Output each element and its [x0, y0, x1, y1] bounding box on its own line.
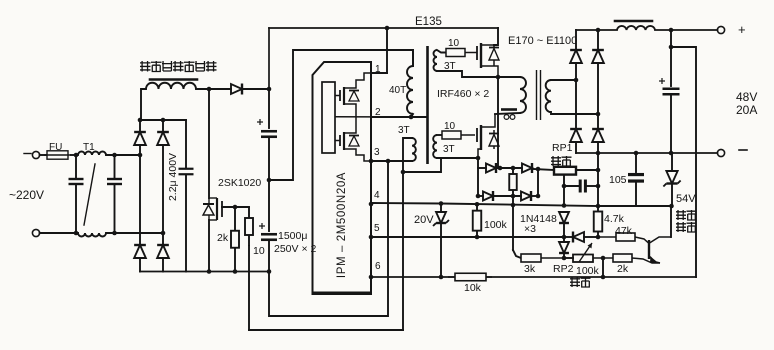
wire zener to RP2: [564, 257, 573, 259]
junction pin5 edge: [369, 235, 374, 240]
wire +rail out: [655, 29, 717, 31]
svg-text:100k: 100k: [576, 265, 600, 277]
svg-text:2k: 2k: [617, 263, 629, 275]
junction 598 237: [596, 235, 601, 240]
label over voltage: [676, 210, 697, 220]
junction pin6 edge: [369, 275, 374, 280]
wire N terminal to T1 bottom: [40, 232, 78, 234]
wire snubber drop: [497, 77, 499, 168]
junction 2k on rail: [233, 269, 238, 274]
junction T1 cap right top: [112, 153, 117, 158]
transistor IRF460 upper: [477, 43, 499, 77]
junction bridge col2 top: [161, 118, 166, 123]
wire X-cap right upper: [114, 155, 116, 178]
label 47k: [615, 225, 633, 237]
junction gate 2k: [233, 205, 238, 210]
resistor 3k: [521, 254, 564, 262]
svg-text:3: 3: [374, 147, 380, 158]
junction chain rail: [601, 275, 606, 280]
diode clamp 2b: [521, 191, 531, 201]
wire T1 top to bridge: [106, 154, 140, 156]
capacitor X2: [107, 179, 122, 184]
junction switch node: [496, 75, 501, 80]
IPM mosfet upper: [335, 73, 371, 117]
wire output cap lower: [670, 95, 672, 154]
label 2SK1020: [218, 177, 261, 189]
svg-text:100k: 100k: [484, 219, 508, 231]
diode 1N4148 b: [573, 232, 584, 243]
svg-text:20A: 20A: [736, 103, 757, 117]
svg-text:RP2: RP2: [553, 263, 574, 275]
wire lower source drop: [477, 158, 479, 196]
junction cap2 rail: [267, 269, 272, 274]
junction secondary top: [574, 78, 579, 83]
inductor primary: [520, 77, 526, 113]
capacitor 2.2u 400V: [179, 169, 194, 175]
junction zener rail: [439, 275, 444, 280]
junction row1 switch: [498, 166, 503, 171]
junction wiper pin5: [562, 235, 567, 240]
label 2.2u 400V: [167, 153, 179, 201]
junction -rail 105: [634, 151, 639, 156]
junction row2 end: [536, 194, 541, 199]
wire 40T bottom: [411, 114, 413, 117]
wire 40T top: [412, 50, 414, 66]
wire wiper diode: [564, 236, 573, 238]
label RP2: [553, 263, 574, 275]
wire 4148c upper: [563, 237, 565, 242]
wire bulk cap 2.2u lower: [185, 175, 187, 272]
wire clamp vertical: [537, 169, 539, 196]
wire bridge col2 lower: [162, 258, 164, 272]
junction chain zener: [562, 256, 567, 261]
label - out: [739, 149, 747, 151]
label voltage adjust: [570, 277, 591, 287]
wire PFC diode to bus: [242, 88, 269, 90]
diode bridge D2: [157, 132, 169, 145]
transistor IRF460 lower: [477, 114, 499, 158]
junction bridge col1 top: [138, 118, 143, 123]
svg-text:4: 4: [374, 190, 380, 201]
wire bus cap1 upper: [268, 89, 270, 128]
svg-text:10k: 10k: [464, 282, 482, 294]
wire 20V upper: [440, 204, 442, 213]
inductor PFC core bar: [150, 78, 197, 81]
label 4.7k: [604, 213, 625, 225]
junction bridge col2 AC: [161, 231, 166, 236]
junction 3T source: [476, 156, 481, 161]
junction 20V top: [439, 201, 444, 206]
transformer T1 bottom winding: [78, 233, 106, 237]
transistor 2SK1020: [203, 198, 222, 220]
svg-text:2SK1020: 2SK1020: [218, 177, 261, 189]
wire rect col1: [575, 30, 577, 50]
svg-text:IPM – 2M500N20A: IPM – 2M500N20A: [336, 172, 348, 278]
inductor output filter: [617, 26, 655, 30]
junction sense tap: [669, 45, 674, 50]
capacitor 105: [628, 175, 644, 182]
wire primary bottom: [495, 113, 520, 114]
capacitor bulk upper: [257, 119, 277, 137]
junction output cap top: [669, 28, 674, 33]
inductor output core bar: [615, 20, 652, 23]
label 20A: [736, 103, 757, 117]
transformer T1 core diagonal: [84, 164, 95, 225]
wire sense line: [671, 47, 696, 277]
label 10 lower: [444, 121, 456, 132]
junction T1 cap left top: [74, 153, 79, 158]
junction source on rail: [207, 269, 212, 274]
junction 598 206: [596, 204, 601, 209]
junction T1 cap right bottom: [112, 231, 117, 236]
resistor 47k: [598, 233, 635, 241]
wire bus cap1 lower: [268, 137, 270, 231]
wire bridge col2 mid: [162, 145, 164, 245]
wire row1 mid: [497, 167, 522, 169]
wire y172 link: [403, 158, 441, 172]
junction pin3: [386, 159, 391, 164]
wire 3T lower bottom: [437, 157, 478, 159]
label 2k: [217, 232, 229, 244]
wire row2 left: [478, 195, 483, 197]
resistor 100k: [473, 204, 482, 237]
inductor 40T primary: [407, 66, 413, 114]
svg-text:250V × 2: 250V × 2: [274, 243, 316, 255]
label power factor corrector: [140, 61, 217, 72]
label IRF460 x 2: [437, 88, 489, 100]
svg-text:+: +: [738, 22, 746, 37]
label T1: [83, 142, 95, 153]
junction ovp node: [669, 204, 674, 209]
wire X-cap left upper: [75, 155, 77, 178]
wire row1 to RP1: [533, 169, 554, 170]
label 100k rp2: [576, 265, 600, 277]
wire chain to rail: [602, 258, 604, 277]
junction wiper pin4: [562, 203, 567, 208]
junction bridge col1 AC: [138, 153, 143, 158]
junction comp cap right: [596, 184, 601, 189]
wire FU to T1: [71, 154, 78, 156]
wire secondary top: [551, 79, 576, 81]
svg-text:40T: 40T: [389, 85, 406, 96]
label 105: [609, 174, 627, 186]
svg-text:×3: ×3: [524, 223, 536, 235]
label 2k out: [617, 263, 629, 275]
svg-text:5: 5: [374, 223, 380, 234]
wire 3T upper top: [437, 50, 446, 53]
svg-text:2k: 2k: [217, 232, 229, 244]
junction 100k top: [475, 202, 480, 207]
wire 3T left bottom: [388, 160, 412, 162]
wire outer drive loop: [249, 329, 403, 331]
transformer core E135: [426, 46, 429, 164]
wire secondary bottom: [551, 112, 598, 114]
wire row2 right: [532, 195, 538, 197]
inductor PFC boost: [146, 83, 196, 89]
wire RP1 right: [576, 169, 598, 171]
label pin 2: [375, 107, 381, 118]
diode rect D2: [592, 50, 604, 63]
junction row1 rp1: [536, 167, 541, 172]
wire 3T upper bottom: [437, 71, 498, 77]
potentiometer RP2: [573, 243, 593, 262]
label pin 6: [375, 261, 381, 272]
wire 2SK1020 gate: [222, 206, 249, 208]
wire bridge col1 upper: [139, 120, 141, 132]
wire rect col1 mid: [575, 63, 577, 129]
junction row2 left: [476, 194, 481, 199]
wire rect col2 top: [597, 30, 599, 50]
wire input top dash: [24, 153, 31, 155]
wire rail to upper drain: [494, 28, 498, 45]
junction rect col2 rail: [596, 28, 601, 33]
capacitor RP1 comp: [580, 180, 585, 193]
transistor Q1: [632, 237, 671, 263]
svg-text:47k: 47k: [615, 225, 633, 237]
wire loop cap to pin3: [269, 161, 388, 316]
inductor 3T upper: [434, 50, 438, 71]
svg-text:E170 ~ E1100: E170 ~ E1100: [508, 35, 577, 47]
wire -rail: [576, 152, 717, 154]
diode 1N4148 a: [559, 212, 569, 223]
wire 105 lower: [635, 181, 637, 206]
resistor 10 lower: [442, 131, 475, 139]
wire RP1 wiper: [563, 175, 565, 186]
resistor 2k gate: [231, 207, 239, 272]
wire X-cap left lower: [75, 185, 77, 233]
input terminal N: [32, 229, 39, 236]
wire output cap drop: [670, 30, 672, 86]
inductor secondary: [546, 80, 551, 112]
diode bridge D1: [134, 132, 146, 145]
inductor 3T left: [412, 138, 416, 161]
wire X-cap right lower: [114, 185, 116, 233]
wire 54V lower: [671, 184, 673, 207]
label FU: [49, 142, 62, 153]
wire bridge top rail: [140, 119, 186, 121]
wire rect col1 bottom: [575, 142, 577, 153]
label 48V: [736, 90, 757, 104]
diode rect D4: [592, 129, 604, 142]
output terminal +: [717, 26, 724, 33]
wire bottom rail left: [140, 271, 269, 273]
svg-text:FU: FU: [49, 142, 62, 153]
junction secondary bottom: [596, 112, 601, 117]
label IPM-2M500N20A: [336, 172, 348, 278]
label x3: [524, 223, 536, 235]
junction cap midpoint: [267, 178, 272, 183]
wire 4148c lower: [563, 253, 565, 258]
junction rp2 2k: [601, 256, 606, 261]
svg-text:1500μ: 1500μ: [278, 230, 307, 242]
wire pin6 rail: [371, 276, 696, 278]
wire 2SK1020 drain: [208, 89, 210, 198]
label 100k: [484, 219, 508, 231]
svg-text:2.2μ 400V: 2.2μ 400V: [167, 153, 179, 201]
diode rect D1: [570, 50, 582, 63]
wire row1 left: [478, 167, 486, 169]
label 10 gate: [253, 245, 265, 257]
wire bulk cap 2.2u drop: [185, 120, 187, 168]
wire 10 through rail: [248, 246, 250, 330]
label ~220V: [9, 188, 44, 202]
svg-text:10: 10: [444, 121, 456, 132]
label 10 upper: [448, 38, 460, 49]
resistor 10k: [448, 273, 492, 281]
wire PFC coil out: [196, 88, 231, 90]
label pin 5: [374, 223, 380, 234]
wire wiper cap left: [564, 185, 579, 187]
svg-text:48V: 48V: [736, 90, 757, 104]
wire L terminal to FU: [40, 154, 47, 156]
label 10k: [464, 282, 482, 294]
wire pin3: [371, 160, 412, 162]
label 54V: [676, 193, 696, 205]
wire 105 upper: [635, 153, 637, 172]
wire 3T left top: [403, 138, 412, 330]
wire 20V lower: [440, 223, 442, 277]
label 20V: [414, 214, 434, 226]
wire rect col2 bottom: [597, 142, 599, 154]
capacitor X1: [69, 179, 84, 184]
fuse FU: [44, 151, 71, 159]
IPM internal mid wire: [335, 116, 371, 118]
label 3k: [524, 263, 536, 275]
label pin 1: [375, 64, 381, 75]
wire pin4 line: [371, 203, 598, 206]
diode bridge D3: [134, 245, 146, 258]
label E170-E1100: [508, 35, 577, 47]
wire midpoint to winding return: [269, 50, 413, 180]
svg-text:4.7k: 4.7k: [604, 213, 625, 225]
svg-text:10: 10: [448, 38, 460, 49]
junction RP1 right: [596, 168, 601, 173]
label pin 3: [374, 147, 380, 158]
resistor clamp: [509, 168, 517, 196]
svg-text:20V: 20V: [414, 214, 434, 226]
label 3T lower: [443, 144, 455, 155]
junction T1 cap left bottom: [74, 231, 79, 236]
svg-text:6: 6: [375, 261, 381, 272]
diode rect D3: [570, 129, 582, 142]
junction pin2 40T: [409, 115, 414, 120]
IPM gate-drive block: [322, 82, 335, 153]
wire clamp res to chain: [512, 196, 514, 250]
inductor 3T lower: [433, 135, 437, 158]
wire pin1 drop: [386, 28, 388, 73]
wire wiper cap right: [585, 185, 598, 187]
svg-text:IRF460 × 2: IRF460 × 2: [437, 88, 489, 100]
junction PFC switch node: [207, 87, 212, 92]
wire 2SK1020 source: [208, 220, 210, 272]
diode clamp 2a: [483, 191, 493, 201]
wire row2 mid: [494, 195, 521, 197]
wire col598 a: [597, 154, 599, 206]
svg-text:105: 105: [609, 174, 627, 186]
label pin 4: [374, 190, 380, 201]
wire T1 bottom to bridge: [106, 232, 163, 234]
wire bridge col1 lower: [139, 258, 141, 272]
resistor 10 upper: [446, 49, 477, 57]
junction pin3 edge: [369, 159, 374, 164]
resistor 2k out: [593, 254, 632, 262]
junction 3T left return: [401, 170, 406, 175]
output terminal -: [717, 149, 724, 156]
wire wiper down: [563, 186, 565, 206]
IC IPM-2M500N20A outline: [313, 62, 372, 294]
wire pin5 line: [371, 236, 564, 238]
wire rect col2 mid: [597, 63, 599, 129]
wire diode to 4.7k: [584, 236, 598, 238]
capacitor 1500u 250V: [259, 223, 277, 240]
junction wiper cap: [562, 184, 567, 189]
potentiometer RP1: [554, 167, 576, 175]
wire 3T lower top: [437, 134, 442, 136]
IPM mosfet lower: [335, 117, 371, 161]
label current limit: [551, 156, 572, 166]
wire chain entry: [513, 250, 521, 258]
wire ovp bottom: [598, 205, 671, 207]
wire bridge col1 mid: [139, 145, 141, 245]
junction top rail pin1: [385, 26, 390, 31]
svg-text:~220V: ~220V: [9, 188, 44, 202]
junction clamp res top: [511, 166, 516, 171]
wire PFC coil input: [141, 89, 146, 120]
junction pin4 edge: [369, 202, 374, 207]
label 1N4148: [520, 213, 557, 225]
diode clamp 1a: [486, 163, 496, 173]
svg-text:3T: 3T: [443, 144, 455, 155]
junction -rail cap: [669, 151, 674, 156]
label E135: [415, 16, 442, 28]
wire top rail E135: [269, 27, 498, 29]
resistor 10 gate: [245, 207, 253, 246]
diode PFC boost: [231, 84, 242, 95]
junction PFC bus: [267, 87, 272, 92]
zener 54V: [663, 171, 680, 187]
diode bridge D4: [157, 245, 169, 258]
wire bridge col2 upper: [162, 120, 164, 132]
svg-text:RP1: RP1: [552, 142, 573, 154]
label 250Vx2: [274, 243, 316, 255]
label 1500u: [278, 230, 307, 242]
wire primary top: [498, 76, 520, 78]
resistor 4.7k: [594, 206, 603, 237]
input terminal L: [32, 151, 39, 158]
transformer primary polarity bar: [501, 110, 517, 120]
svg-text:3T: 3T: [398, 125, 410, 136]
wire 4148a lower: [563, 223, 565, 237]
junction clamp pin4: [511, 203, 516, 208]
capacitor output: [659, 78, 680, 94]
diode clamp 1b: [522, 163, 532, 173]
wire collector drop: [670, 206, 672, 237]
svg-text:54V: 54V: [676, 193, 696, 205]
svg-text:E135: E135: [415, 16, 442, 28]
svg-text:3k: 3k: [524, 263, 536, 275]
label RP1: [552, 142, 573, 154]
svg-text:10: 10: [253, 245, 265, 257]
label 40T: [389, 85, 406, 96]
junction 100k bottom: [475, 235, 480, 240]
diode 1N4148 c: [559, 242, 569, 253]
junction -rail col2: [596, 151, 601, 156]
wire +rail: [576, 29, 617, 31]
wire bus top: [268, 28, 270, 89]
transformer T1 top winding: [78, 152, 106, 155]
label + out: [738, 22, 746, 37]
zener 20V: [433, 212, 449, 226]
